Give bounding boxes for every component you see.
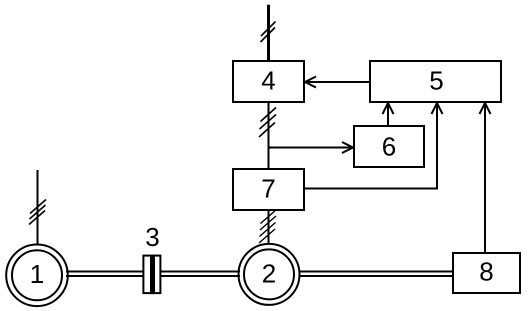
wire: vertical line from block 4 down to block 7 (268, 103, 270, 168)
block 7 (233, 169, 304, 210)
machine 2 (double circle) (239, 244, 300, 305)
svg-text:4: 4 (261, 66, 275, 96)
block 5 (370, 61, 501, 102)
coupling 3 (143, 222, 160, 294)
block 8 (453, 253, 520, 293)
machine 1 (double circle) (6, 244, 68, 306)
svg-text:3: 3 (145, 222, 159, 252)
wire: arrow from block 8 up to block 5 (480, 103, 491, 252)
wire: branch with arrow into block 6 (269, 142, 354, 153)
svg-text:1: 1 (30, 259, 44, 289)
fixed support hatching between block 4 and block 7 (259, 108, 276, 138)
svg-text:7: 7 (261, 174, 275, 204)
shaft between machine 2 and block 8 (double line) (299, 272, 453, 277)
svg-text:8: 8 (479, 257, 493, 287)
shaft between machine 1 and coupling 3 (double line) (66, 272, 143, 277)
shaft between coupling 3 and machine 2 (double line) (161, 272, 240, 277)
fixed support hatching above block 4 (261, 22, 276, 43)
wire: vertical line above machine 1 (37, 170, 39, 245)
svg-text:5: 5 (429, 66, 443, 96)
fixed support hatching above machine 1 (29, 200, 46, 225)
block 4 (233, 61, 304, 102)
wire: elbow from block 7 right edge up to block 5 with arrow (305, 103, 443, 190)
wire: arrow from block 5 to block 4 (305, 77, 369, 88)
svg-text:2: 2 (262, 259, 276, 289)
svg-text:6: 6 (382, 132, 396, 162)
wire: arrow from block 6 up to block 5 (383, 103, 394, 126)
fixed support hatching above machine 2 (259, 210, 277, 244)
wire: vertical line above block 4 (267, 5, 270, 60)
wire: vertical line from block 7 down to machine 2 (268, 210, 270, 244)
block 6 (354, 126, 424, 167)
